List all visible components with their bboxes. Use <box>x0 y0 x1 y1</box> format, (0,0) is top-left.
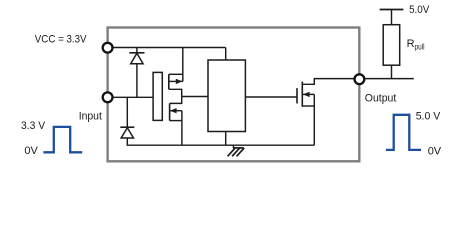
ground symbol <box>232 145 234 148</box>
diode D1 cathode bar <box>129 52 144 54</box>
resistor Rpull body <box>383 25 400 65</box>
IC boundary box U1 <box>108 28 360 162</box>
svg-text:Output: Output <box>365 93 397 105</box>
block U2 (driver stage) <box>208 60 245 132</box>
wire VCC rail <box>108 47 226 49</box>
svg-text:5.0V: 5.0V <box>409 4 430 16</box>
diode D2 triangle <box>121 128 133 138</box>
wire output to pull-up <box>365 78 414 80</box>
pin VCC <box>103 43 113 53</box>
Q2 body line with arrow <box>170 110 182 112</box>
Q3 source stub <box>302 105 314 107</box>
wire block top stem to VCC <box>225 48 227 61</box>
transistor Q1 PMOS channel <box>168 74 170 89</box>
wire resistor bottom stem <box>391 65 393 78</box>
svg-text:0V: 0V <box>24 145 38 157</box>
Q1 body line with arrow <box>169 80 183 82</box>
svg-text:Input: Input <box>79 110 102 122</box>
wire block to Q3 gate <box>245 96 297 98</box>
diode D1 cathode stem <box>136 48 138 53</box>
Q1 source vertical to VCC <box>182 48 184 82</box>
gate electrode of input CMOS pair <box>153 72 162 120</box>
diode D2 cathode stem <box>126 97 128 127</box>
Q3 source vertical to ground <box>313 94 315 145</box>
Q2 source stub <box>170 120 182 122</box>
svg-text:3.3 V: 3.3 V <box>21 120 46 132</box>
wire input line <box>108 96 154 98</box>
Q1 drain stub <box>169 89 182 96</box>
pin Output <box>355 74 365 84</box>
Q3 body line with arrow <box>302 93 314 95</box>
Q2 drain stub <box>170 97 182 104</box>
svg-text:Rpull: Rpull <box>407 38 425 51</box>
transistor Q2 NMOS channel <box>169 103 171 120</box>
svg-text:5.0 V: 5.0 V <box>416 110 441 122</box>
diode D2 cathode bar <box>120 126 134 128</box>
wire inverter output to block <box>182 96 208 98</box>
transistor Q3 gate bar <box>296 88 298 103</box>
svg-text:0V: 0V <box>428 145 442 157</box>
output waveform pulse <box>386 115 421 150</box>
Q2 source vertical to ground <box>181 111 183 146</box>
Q1 source stub <box>169 73 183 75</box>
diode D1 anode stem <box>136 64 138 98</box>
diode D1 triangle <box>131 53 143 64</box>
Q3 drain stub up to output <box>302 79 354 85</box>
Q3 channel bar <box>301 82 303 107</box>
pin Input <box>103 92 113 102</box>
power rail 5.0V bar <box>380 9 404 11</box>
input waveform pulse <box>43 127 82 152</box>
svg-text:VCC = 3.3V: VCC = 3.3V <box>35 33 87 45</box>
wire resistor top stem <box>391 10 393 25</box>
wire block bottom stem to ground <box>225 132 227 146</box>
wire ground rail <box>127 138 314 145</box>
